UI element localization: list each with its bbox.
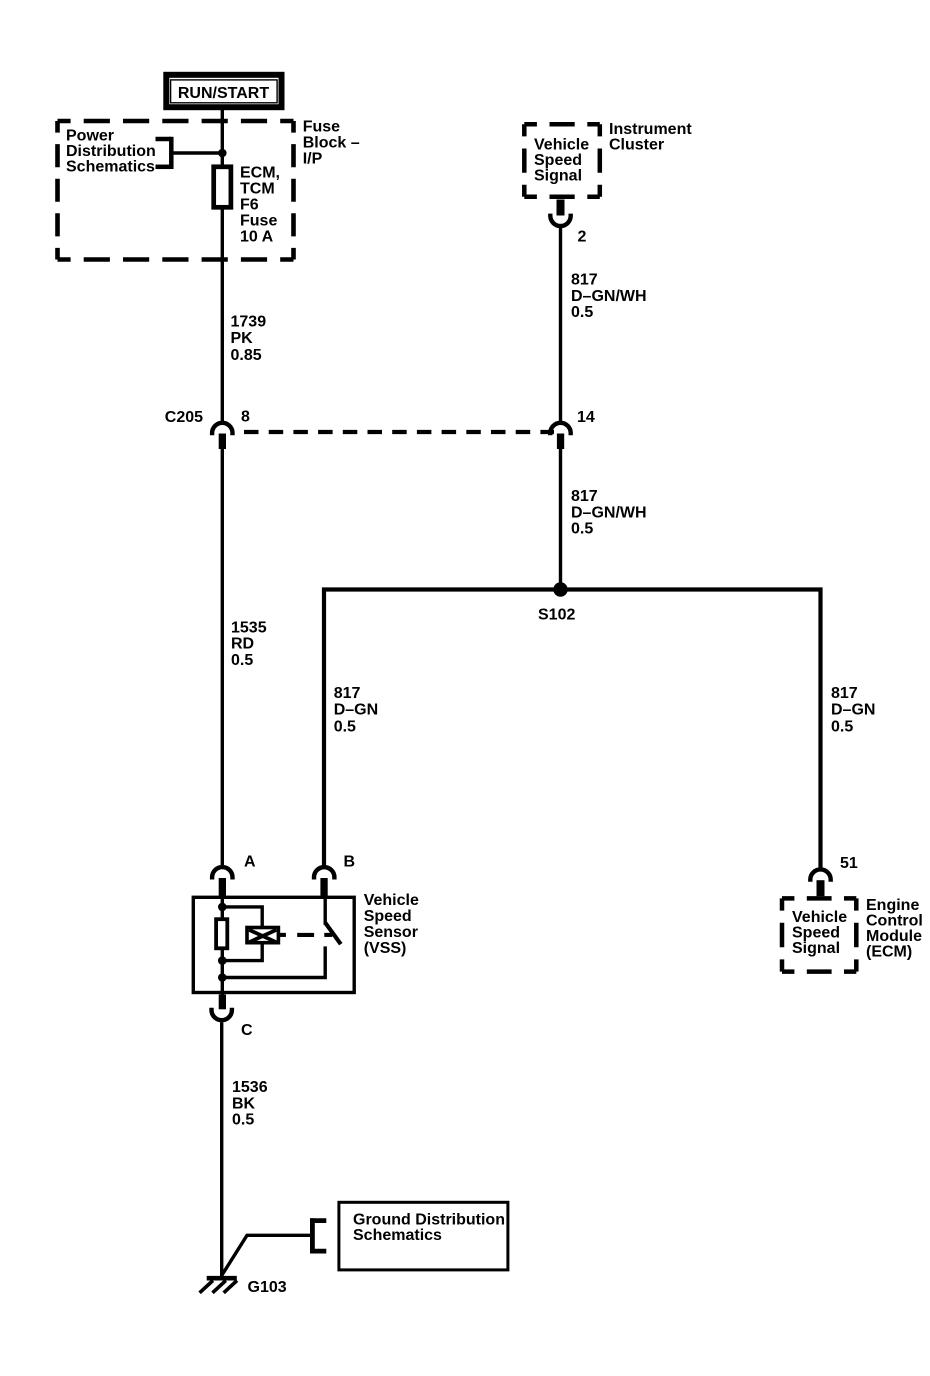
svg-text:51: 51 (840, 855, 858, 872)
connector C205 pin 14 arc (550, 423, 570, 433)
ground symbol G103 (200, 1278, 237, 1293)
switch blade (325, 923, 341, 944)
sensor link dash 1 (297, 933, 314, 937)
sensor X diagonal 2 (249, 930, 276, 943)
switch wire from pin B (324, 896, 327, 925)
bracket for Ground Distribution Schematics (310, 1218, 326, 1253)
ECM pin 51 arc (810, 869, 830, 879)
instrument cluster dashed box: Vehicle Speed Signal (524, 124, 600, 197)
pin A terminal stub (219, 878, 226, 896)
svg-text:B: B (344, 853, 356, 870)
svg-text:14: 14 (577, 409, 595, 426)
svg-text:2: 2 (578, 229, 587, 246)
svg-text:VehicleSpeedSignal: VehicleSpeedSignal (534, 136, 589, 184)
pin B terminal stub (320, 878, 327, 896)
pin 14 terminal stub (557, 434, 564, 450)
RUN/START switch box (166, 75, 281, 107)
VSS internal left wire pin A to pin C (221, 896, 224, 996)
wire branch to ground distribution bracket (222, 1235, 310, 1275)
connector C205 pin 8 arc (212, 423, 232, 433)
ECM dashed box: Vehicle Speed Signal (782, 898, 856, 971)
fuse block I/P dashed box (58, 121, 294, 260)
wire from RUN/START through fuse to connector C205 pin 8 (221, 110, 224, 421)
svg-text:S102: S102 (538, 607, 575, 624)
sensor link dash 2 (324, 933, 332, 937)
fuse ECM TCM F6 10A (214, 167, 231, 208)
pin 2 cup arc (550, 216, 570, 226)
svg-text:RUN/START: RUN/START (178, 85, 269, 102)
svg-text:VehicleSpeedSignal: VehicleSpeedSignal (792, 909, 847, 957)
junction dot top of resistor branch (218, 903, 227, 912)
VSS pin C cup arc (212, 1010, 232, 1020)
svg-text:8: 8 (241, 409, 250, 426)
VSS internal parallel branch top (222, 907, 262, 927)
bracket for Power Distribution Schematics (156, 137, 172, 169)
wire pin C to ground G103 (220, 1022, 223, 1276)
splice bus wire S102 (324, 590, 821, 868)
svg-text:C205: C205 (165, 409, 203, 426)
junction dot return branch (218, 973, 227, 982)
svg-text:A: A (244, 853, 256, 870)
splice dot S102 (553, 582, 567, 596)
VSS pin A arc (212, 867, 232, 877)
Ground Distribution Schematics box (339, 1202, 508, 1270)
pin 2 terminal stub (557, 200, 565, 216)
resistor inside VSS (216, 919, 227, 948)
VSS box (193, 897, 354, 992)
pin 8 terminal stub (219, 434, 226, 450)
svg-text:C: C (241, 1022, 253, 1039)
VSS pin B arc (314, 867, 334, 877)
junction dot at fuse tap (218, 149, 227, 158)
sensor element box with X (247, 928, 278, 943)
pin C terminal stub (219, 995, 226, 1010)
sensor link solid stub (280, 933, 286, 937)
pin 51 terminal stub (817, 880, 825, 896)
VSS internal parallel branch bottom (222, 944, 262, 961)
wire pin 2 to C205 pin 14 (559, 228, 562, 421)
wire bracket to fuse tap (171, 151, 222, 154)
svg-text:G103: G103 (248, 1279, 287, 1296)
dashed connector line C205 (244, 430, 554, 434)
wire C205 pin 8 to VSS pin A (221, 449, 224, 866)
switch lower contact wire (222, 946, 325, 977)
sensor X diagonal 1 (249, 930, 276, 943)
wire C205 pin 14 to splice S102 (559, 449, 562, 590)
junction dot bottom of resistor branch (218, 956, 227, 965)
